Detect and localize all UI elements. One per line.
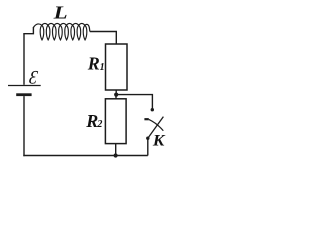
node junction bottom — [114, 153, 118, 157]
switch K fixed jaw dash — [144, 118, 148, 120]
svg-text:Ɛ: Ɛ — [28, 67, 39, 88]
switch K upper contact — [151, 108, 154, 111]
wire R1 bottom to node — [115, 90, 117, 95]
wire node to switch branch — [116, 95, 152, 109]
node junction top — [114, 93, 118, 97]
svg-text:L: L — [52, 3, 67, 23]
svg-text:2: 2 — [96, 119, 102, 130]
svg-text:R: R — [87, 54, 100, 74]
wire top horizontal to R1 — [90, 32, 117, 45]
wire R2 bottom to bottom node — [115, 144, 117, 156]
battery EMF source plates — [8, 86, 41, 95]
resistor R2 — [105, 99, 126, 144]
switch K lower contact — [146, 137, 149, 140]
wire switch to bottom — [147, 138, 149, 155]
wire left vertical (battery top lead) — [23, 34, 25, 85]
wire bottom horizontal — [23, 155, 148, 157]
svg-text:1: 1 — [100, 62, 105, 73]
wire node to R2 — [115, 95, 117, 99]
svg-text:R: R — [85, 111, 98, 131]
switch K jaw curve — [149, 119, 164, 130]
inductor L coil — [33, 23, 89, 39]
svg-text:K: K — [152, 133, 166, 150]
resistor R1 — [106, 44, 128, 90]
switch K blade — [148, 117, 164, 139]
wire top-left horizontal into coil — [23, 27, 33, 34]
wire battery bottom lead — [23, 96, 25, 156]
